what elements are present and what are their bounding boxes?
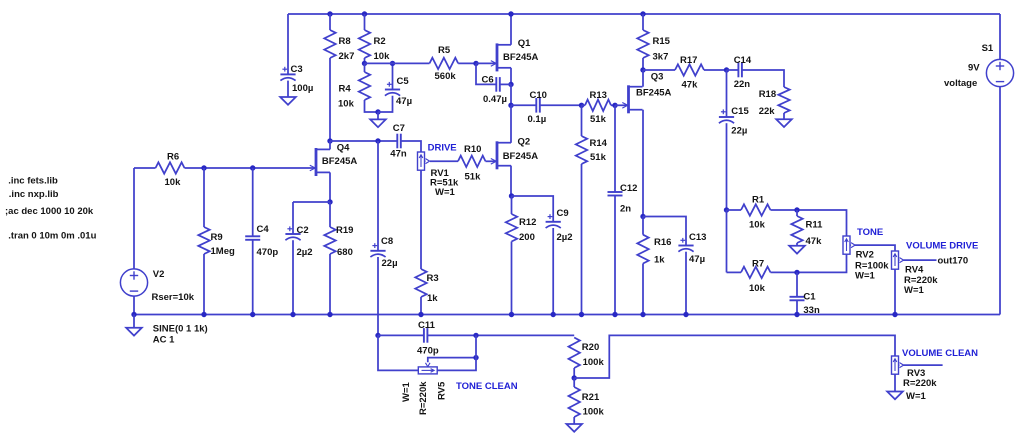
junction node Q3 source <box>640 214 645 219</box>
capacitor C12 <box>608 183 638 215</box>
svg-text:R5: R5 <box>438 45 451 56</box>
wire <box>726 70 728 117</box>
svg-text:R18: R18 <box>759 89 776 100</box>
wire <box>133 296 135 314</box>
wire <box>428 334 575 336</box>
svg-text:SINE(0 1 1k): SINE(0 1 1k) <box>153 324 208 335</box>
capacitor C3 (polarized) <box>280 64 313 94</box>
wire RV4 wiper <box>904 259 937 261</box>
junction <box>201 312 206 317</box>
wire <box>796 300 798 314</box>
svg-text:W=1: W=1 <box>904 285 925 296</box>
junction <box>362 11 367 16</box>
svg-text:C3: C3 <box>291 64 303 75</box>
resistor R6 <box>156 152 185 189</box>
svg-text:9V: 9V <box>968 63 980 74</box>
wire Q2 source <box>510 166 512 196</box>
wire <box>540 104 582 106</box>
wire <box>511 196 513 214</box>
svg-text:DRIVE: DRIVE <box>428 143 457 154</box>
voltage source S1 <box>944 43 1014 89</box>
resistor R9 <box>198 227 235 257</box>
svg-text:RV4: RV4 <box>905 265 924 276</box>
junction node Q3 drain <box>640 67 645 72</box>
svg-text:0.47µ: 0.47µ <box>483 94 507 105</box>
svg-text:Q3: Q3 <box>651 72 664 83</box>
node TONE <box>857 227 883 238</box>
svg-text:10k: 10k <box>749 220 766 231</box>
wire <box>510 84 512 105</box>
wire <box>642 58 644 70</box>
svg-text:W=1: W=1 <box>906 391 927 402</box>
junction node R11 top <box>794 207 799 212</box>
svg-text:680: 680 <box>337 247 353 258</box>
potentiometer RV5 <box>418 363 437 374</box>
junction <box>290 312 295 317</box>
svg-text:BF245A: BF245A <box>636 88 672 99</box>
svg-text:VOLUME DRIVE: VOLUME DRIVE <box>906 241 978 252</box>
svg-text:C7: C7 <box>393 123 405 134</box>
svg-text:R9: R9 <box>211 232 223 243</box>
svg-text:100k: 100k <box>583 407 605 418</box>
svg-text:TONE CLEAN: TONE CLEAN <box>456 381 518 392</box>
svg-text:Q2: Q2 <box>518 137 531 148</box>
resistor R5 <box>430 45 459 82</box>
svg-text:R2: R2 <box>374 36 386 47</box>
spice directive ;ac dec 1000 10 20k <box>5 206 94 217</box>
svg-text:47k: 47k <box>682 80 699 91</box>
wire <box>377 141 379 251</box>
svg-text:C11: C11 <box>418 320 436 331</box>
wire Q3 source <box>642 110 644 217</box>
wire Q4 source <box>329 172 331 202</box>
svg-text:22µ: 22µ <box>731 126 747 137</box>
svg-text:BF245A: BF245A <box>503 52 539 63</box>
wire <box>726 123 728 210</box>
svg-text:C14: C14 <box>734 55 752 66</box>
junction <box>612 312 617 317</box>
wire <box>134 167 156 169</box>
wire <box>401 141 421 152</box>
wire <box>742 70 784 87</box>
wire <box>437 335 476 370</box>
svg-text:2n: 2n <box>620 204 631 215</box>
svg-text:W=1: W=1 <box>435 187 456 198</box>
svg-text:R19: R19 <box>336 225 353 236</box>
wire <box>727 271 742 273</box>
wire <box>894 374 896 391</box>
wire <box>377 257 379 335</box>
svg-text:C9: C9 <box>557 208 569 219</box>
resistor R7 <box>741 259 771 295</box>
capacitor C4 <box>245 224 278 258</box>
svg-text:R1: R1 <box>752 195 765 206</box>
junction <box>375 333 380 338</box>
svg-text:RV2: RV2 <box>856 250 874 261</box>
resistor R14 <box>576 136 608 164</box>
node VOLUME CLEAN <box>902 348 978 359</box>
wire <box>511 242 513 315</box>
wire <box>614 196 616 315</box>
junction node C5 top <box>390 61 395 66</box>
wire <box>420 170 422 269</box>
capacitor C8 (polarized) <box>370 236 397 269</box>
capacitor C14 <box>734 55 752 90</box>
junction <box>724 67 729 72</box>
junction <box>724 207 729 212</box>
svg-text:C2: C2 <box>297 225 309 236</box>
svg-text:10k: 10k <box>374 51 391 62</box>
wire <box>771 210 847 236</box>
junction <box>327 312 332 317</box>
resistor R3 <box>415 269 438 304</box>
svg-text:0.1µ: 0.1µ <box>528 114 547 125</box>
svg-text:R16: R16 <box>654 237 671 248</box>
potentiometer RV5 labels <box>401 381 448 415</box>
wire <box>796 243 798 246</box>
resistor R20 <box>569 338 605 369</box>
svg-text:voltage: voltage <box>944 78 977 89</box>
wire <box>573 368 575 378</box>
svg-text:R10: R10 <box>464 144 481 155</box>
wire <box>293 201 330 203</box>
wire <box>430 160 458 162</box>
wire <box>392 63 394 89</box>
wire <box>643 69 675 71</box>
wire <box>510 105 512 143</box>
junction <box>473 355 478 360</box>
svg-text:47n: 47n <box>390 149 407 160</box>
svg-text:Rser=10k: Rser=10k <box>152 292 195 303</box>
transistor Q4 (BF245A JFET) <box>310 142 358 176</box>
node out170 <box>938 256 969 267</box>
wire <box>133 168 135 269</box>
wire <box>727 209 742 211</box>
wire <box>377 112 379 119</box>
svg-text:R14: R14 <box>590 138 608 149</box>
wire <box>771 254 847 272</box>
capacitor C11 <box>417 320 439 357</box>
junction node Q1 gate <box>473 61 478 66</box>
junction <box>375 138 380 143</box>
node VOLUME DRIVE <box>906 241 978 252</box>
svg-text:RV5: RV5 <box>436 381 447 400</box>
junction <box>579 312 584 317</box>
svg-text:51k: 51k <box>590 152 607 163</box>
junction node Q4 source <box>327 199 332 204</box>
junction <box>201 165 206 170</box>
ground <box>280 97 296 105</box>
wire <box>512 196 554 222</box>
svg-text:R=220k: R=220k <box>903 378 937 389</box>
svg-text:C4: C4 <box>257 224 270 235</box>
resistor R2 <box>359 30 390 62</box>
wire <box>552 228 554 315</box>
svg-text:51k: 51k <box>465 172 482 183</box>
junction <box>508 82 513 87</box>
wire <box>203 168 205 227</box>
ground <box>566 424 582 432</box>
svg-text:R21: R21 <box>582 392 600 403</box>
svg-text:out170: out170 <box>938 256 969 267</box>
spice directive .inc nxp.lib <box>9 189 59 200</box>
resistor R12 <box>506 214 537 243</box>
wire <box>642 217 644 235</box>
svg-text:.tran 0 10m 0m .01u: .tran 0 10m 0m .01u <box>8 231 96 242</box>
svg-text:C15: C15 <box>731 106 749 117</box>
wire <box>378 96 393 112</box>
resistor R16 <box>637 235 671 266</box>
wire <box>581 164 583 315</box>
svg-text:;ac dec 1000 10 20k: ;ac dec 1000 10 20k <box>5 206 94 217</box>
wire <box>329 202 331 227</box>
svg-text:W=1: W=1 <box>855 271 876 282</box>
junction <box>250 165 255 170</box>
svg-text:100µ: 100µ <box>292 83 313 94</box>
svg-text:R4: R4 <box>339 84 352 95</box>
wire <box>581 105 583 136</box>
voltage source V2 <box>120 269 194 303</box>
wire <box>292 202 294 234</box>
svg-text:R15: R15 <box>653 36 671 47</box>
potentiometer RV4 <box>892 251 939 296</box>
svg-text:2k7: 2k7 <box>339 51 355 62</box>
wire <box>364 14 366 30</box>
transistor Q1 (BF245A JFET) <box>491 38 539 71</box>
wire <box>685 252 687 315</box>
svg-text:R11: R11 <box>806 220 824 231</box>
wire <box>133 315 135 328</box>
wire Q1 source <box>510 68 512 85</box>
wire Q1 drain <box>510 14 512 45</box>
wire RV3 wiper <box>904 364 943 366</box>
wire <box>643 217 686 246</box>
junction <box>572 375 577 380</box>
svg-text:2µ2: 2µ2 <box>297 247 313 258</box>
resistor R1 <box>741 195 771 231</box>
svg-text:BF245A: BF245A <box>503 151 539 162</box>
capacitor C1 <box>790 292 820 317</box>
wire <box>573 417 575 424</box>
node DRIVE <box>428 143 457 154</box>
node label SINE directive <box>153 324 208 346</box>
wire <box>458 62 476 64</box>
svg-text:R17: R17 <box>680 55 697 66</box>
wire <box>796 272 798 296</box>
junction <box>508 11 513 16</box>
svg-text:R6: R6 <box>167 152 179 163</box>
wire <box>642 14 644 30</box>
spice directive .inc fets.lib <box>8 176 58 187</box>
junction node Q4 drain <box>327 138 332 143</box>
wire <box>329 254 331 315</box>
resistor R4 <box>338 72 370 110</box>
resistor R15 <box>637 30 670 63</box>
ground <box>789 246 805 254</box>
junction <box>327 11 332 16</box>
svg-text:470p: 470p <box>417 346 439 357</box>
wire <box>364 58 366 63</box>
svg-text:470p: 470p <box>257 247 279 258</box>
junction <box>683 312 688 317</box>
junction <box>250 312 255 317</box>
wire <box>292 240 294 314</box>
svg-text:R7: R7 <box>752 259 764 270</box>
wire <box>999 87 1001 315</box>
junction <box>473 333 478 338</box>
svg-text:C5: C5 <box>397 76 410 87</box>
junction <box>640 312 645 317</box>
wire <box>726 210 728 272</box>
resistor R10 <box>458 144 486 183</box>
svg-text:W=1: W=1 <box>401 381 412 402</box>
svg-text:C13: C13 <box>689 232 706 243</box>
svg-text:BF245A: BF245A <box>322 156 358 167</box>
svg-text:.inc nxp.lib: .inc nxp.lib <box>9 189 59 200</box>
transistor Q2 (BF245A JFET) <box>491 137 538 170</box>
resistor R13 <box>585 90 611 125</box>
capacitor C9 (polarized) <box>546 208 573 243</box>
svg-text:10k: 10k <box>338 99 355 110</box>
wire <box>252 240 254 315</box>
wire <box>329 14 331 30</box>
wire <box>486 160 497 162</box>
svg-text:22k: 22k <box>759 106 776 117</box>
svg-text:R8: R8 <box>339 36 351 47</box>
wire <box>727 69 739 71</box>
wire <box>185 167 315 169</box>
wire <box>420 297 422 315</box>
wire <box>582 104 586 106</box>
junction <box>551 312 556 317</box>
junction <box>612 103 617 108</box>
svg-text:10k: 10k <box>749 283 766 294</box>
svg-text:R=220k: R=220k <box>418 381 429 415</box>
potentiometer RV3 <box>892 356 938 402</box>
wire <box>287 81 289 97</box>
capacitor C6 <box>482 75 507 106</box>
svg-text:Q4: Q4 <box>337 142 350 153</box>
wire <box>476 63 496 84</box>
transistor Q3 (BF245A JFET) <box>622 72 671 114</box>
wire <box>329 58 331 141</box>
ground <box>887 392 903 400</box>
svg-text:2µ2: 2µ2 <box>557 232 573 243</box>
svg-text:V2: V2 <box>153 269 165 280</box>
resistor R17 <box>675 55 704 91</box>
svg-text:10k: 10k <box>165 177 182 188</box>
wire RV5 wiper <box>428 358 476 363</box>
svg-text:.inc fets.lib: .inc fets.lib <box>8 176 58 187</box>
svg-text:C12: C12 <box>620 183 637 194</box>
resistor R11 <box>791 216 823 247</box>
svg-text:C6: C6 <box>482 75 494 86</box>
svg-text:1Meg: 1Meg <box>211 246 235 257</box>
ground <box>776 119 792 127</box>
svg-text:22n: 22n <box>734 79 751 90</box>
wire <box>796 210 798 216</box>
wire DRIVE row <box>330 140 397 142</box>
wire <box>500 83 511 85</box>
svg-text:47µ: 47µ <box>689 254 705 265</box>
wire Q4 drain <box>329 141 331 149</box>
ground <box>370 119 386 127</box>
junction node R2/R4 <box>362 61 367 66</box>
capacitor C13 (polarized) <box>678 232 706 265</box>
wire <box>378 334 424 336</box>
junction <box>131 312 136 317</box>
potentiometer RV2 <box>843 236 889 282</box>
junction <box>375 109 380 114</box>
resistor R8 <box>324 30 354 62</box>
wire <box>642 264 644 315</box>
wire <box>287 14 289 74</box>
svg-text:Q1: Q1 <box>518 38 531 49</box>
svg-text:47k: 47k <box>806 236 823 247</box>
junction <box>579 103 584 108</box>
capacitor C7 <box>390 123 407 160</box>
svg-text:C10: C10 <box>530 90 547 101</box>
junction node C1 top <box>794 270 799 275</box>
svg-text:51k: 51k <box>590 114 607 125</box>
junction node Q2 source <box>509 193 514 198</box>
wire <box>614 105 616 192</box>
wire <box>378 335 418 370</box>
wire <box>252 168 254 236</box>
junction <box>508 103 513 108</box>
svg-text:22µ: 22µ <box>382 258 398 269</box>
junction <box>640 11 645 16</box>
svg-text:1k: 1k <box>654 255 665 266</box>
wire supply rail <box>288 13 1000 15</box>
wire ground rail <box>134 314 1000 316</box>
capacitor C10 <box>528 90 547 125</box>
junction <box>892 312 897 317</box>
junction <box>794 312 799 317</box>
svg-text:S1: S1 <box>982 43 994 54</box>
wire <box>574 335 895 378</box>
spice directive .tran 0 10m 0m .01u <box>8 231 96 242</box>
wire <box>611 104 615 106</box>
wire Q3 drain <box>642 70 644 87</box>
junction <box>509 312 514 317</box>
capacitor C2 (polarized) <box>285 225 312 258</box>
svg-text:1k: 1k <box>427 293 438 304</box>
svg-text:C1: C1 <box>803 292 816 303</box>
wire <box>364 63 366 72</box>
svg-text:R3: R3 <box>427 273 439 284</box>
wire <box>894 269 896 314</box>
capacitor C15 (polarized) <box>719 106 750 137</box>
wire <box>511 104 536 106</box>
svg-text:R20: R20 <box>582 342 599 353</box>
svg-text:200: 200 <box>519 232 535 243</box>
wire RV2 wiper <box>855 245 895 251</box>
potentiometer RV1 <box>418 152 459 198</box>
wire <box>573 378 575 387</box>
svg-text:VOLUME CLEAN: VOLUME CLEAN <box>902 348 978 359</box>
resistor R19 <box>324 225 353 258</box>
svg-text:3k7: 3k7 <box>653 52 669 63</box>
wire <box>783 113 785 119</box>
svg-text:100k: 100k <box>583 357 605 368</box>
ground <box>126 328 142 336</box>
wire <box>704 69 727 71</box>
wire <box>615 104 627 106</box>
wire <box>999 14 1001 59</box>
wire <box>365 100 379 112</box>
svg-text:C8: C8 <box>381 236 393 247</box>
